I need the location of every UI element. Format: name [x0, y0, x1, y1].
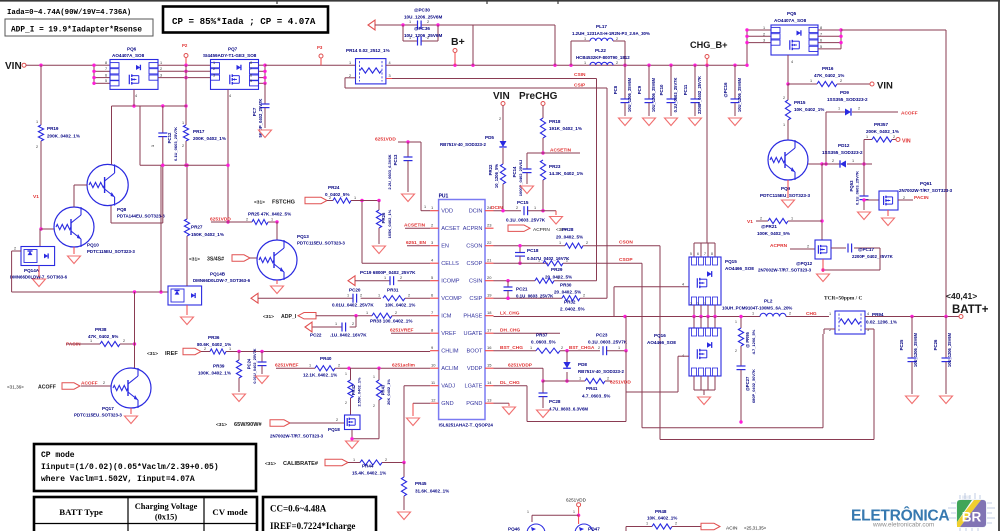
svg-text:P2: P2 — [182, 43, 188, 48]
svg-text:2: 2 — [123, 339, 125, 343]
net V1 label — [33, 194, 39, 200]
svg-text:80.6K_0402_1%: 80.6K_0402_1% — [197, 342, 231, 347]
svg-text:LX_CHG: LX_CHG — [500, 311, 520, 317]
svg-text:RB751V-40_SOD323-2: RB751V-40_SOD323-2 — [578, 369, 624, 374]
arrow B+ bus — [368, 20, 375, 30]
svg-text:VADJ: VADJ — [441, 384, 455, 390]
svg-text:0.02_1206_1%: 0.02_1206_1% — [866, 320, 897, 325]
svg-text:PDTC115EU_SOT323-3: PDTC115EU_SOT323-3 — [760, 193, 810, 198]
resistor PR48 — [626, 509, 701, 531]
capacitor PC14 — [512, 153, 532, 196]
resistor PR16 — [788, 66, 870, 87]
capacitor PC27 — [737, 366, 757, 424]
svg-text:3: 3 — [160, 73, 162, 77]
capacitor PC18 — [515, 244, 570, 265]
svg-text:V1: V1 — [747, 219, 753, 225]
ground PQ12 — [817, 259, 830, 282]
svg-text:PD12: PD12 — [838, 143, 850, 148]
resistor PR18 — [540, 106, 582, 139]
svg-text:4: 4 — [791, 60, 793, 64]
capacitor PC9 — [637, 65, 656, 125]
svg-text:@PC16: @PC16 — [723, 82, 728, 98]
wire PQ15 gate — [614, 283, 689, 287]
svg-text:1: 1 — [752, 312, 754, 316]
ground PC7 — [259, 130, 272, 138]
svg-text:1: 1 — [579, 377, 581, 381]
svg-text:▒▒▒: ▒▒▒ — [962, 496, 970, 500]
svg-text:2: 2 — [675, 522, 677, 526]
svg-text:2: 2 — [160, 67, 162, 71]
svg-text:PD5: PD5 — [485, 135, 494, 140]
svg-text:PR42: PR42 — [351, 384, 356, 395]
svg-text:6251VREF: 6251VREF — [275, 362, 299, 368]
svg-text:10_1206_5%: 10_1206_5% — [494, 164, 499, 188]
capacitor PC11 — [683, 65, 702, 125]
svg-text:22: 22 — [487, 240, 492, 245]
svg-text:2: 2 — [204, 347, 206, 351]
svg-text:200K_0402_1%: 200K_0402_1% — [866, 129, 899, 134]
svg-text:PR44: PR44 — [362, 464, 374, 469]
net 6251_EN — [406, 240, 430, 246]
svg-text:(0x15): (0x15) — [155, 513, 178, 522]
svg-text:LGATE: LGATE — [464, 384, 482, 390]
node BATT+ — [946, 291, 989, 319]
svg-text:4: 4 — [431, 258, 434, 263]
diode PD8 zener — [563, 351, 624, 383]
svg-text:2: 2 — [352, 322, 354, 326]
net CSON label — [619, 240, 633, 246]
capacitor PC15 — [506, 200, 556, 223]
wire PQ6-PQ7 rows — [158, 65, 211, 77]
node VIN right — [870, 81, 893, 92]
svg-text:PC10: PC10 — [659, 84, 664, 95]
wire bottom-left rail — [12, 290, 168, 293]
svg-text:2: 2 — [338, 364, 340, 368]
resistor PR17 — [182, 121, 226, 148]
svg-text:5: 5 — [250, 79, 252, 83]
svg-text:UGATE: UGATE — [464, 331, 483, 337]
svg-text:PQ46: PQ46 — [508, 527, 520, 531]
capacitor PC25 — [899, 317, 918, 395]
wire PQ8 base link — [74, 185, 87, 207]
svg-text:CHLIM: CHLIM — [441, 349, 459, 355]
svg-text:PC12: PC12 — [167, 132, 172, 143]
node CHG_B+ — [690, 40, 728, 65]
connector 65W/90W# — [216, 420, 290, 428]
ground PC24 — [256, 376, 269, 384]
wire B+ bus drop2 — [554, 25, 556, 65]
svg-text:9: 9 — [431, 345, 434, 350]
ground PC28 — [537, 410, 550, 418]
svg-text:PR41: PR41 — [586, 386, 598, 391]
svg-text:CSIN: CSIN — [469, 279, 482, 285]
svg-text:3S/4S#: 3S/4S# — [207, 257, 224, 263]
resistor PR32 — [560, 294, 607, 312]
svg-text:6: 6 — [250, 73, 252, 77]
svg-text:PHASE: PHASE — [463, 314, 482, 320]
svg-text:ACPRN: ACPRN — [770, 243, 788, 249]
wire PQ8 emitter tie — [111, 106, 113, 164]
resistor PR41 — [543, 377, 612, 399]
svg-text:1: 1 — [559, 241, 561, 245]
svg-text:PACIN: PACIN — [914, 195, 929, 201]
arrow ICOMP — [348, 276, 355, 286]
wire PQ5 pin4 — [786, 55, 789, 86]
svg-text:4.7_1206_5%: 4.7_1206_5% — [751, 329, 756, 354]
resistor PR30 — [535, 276, 597, 295]
capacitor PC21 — [504, 281, 555, 300]
svg-text:2: 2 — [395, 311, 397, 315]
svg-text:PR28: PR28 — [562, 227, 574, 232]
svg-text:1: 1 — [534, 206, 536, 210]
svg-text:4.7U_0603_6.3V6M: 4.7U_0603_6.3V6M — [549, 407, 588, 412]
capacitor PC24 — [247, 348, 267, 383]
note CC box — [263, 497, 376, 531]
svg-text:CSIN: CSIN — [574, 72, 586, 78]
resistor PR23 — [540, 160, 583, 211]
svg-text:PQ6: PQ6 — [127, 47, 137, 52]
node VIN input — [5, 61, 26, 72]
resistor PR94 0.02_1206_1% — [829, 311, 897, 334]
svg-text:2: 2 — [832, 159, 834, 163]
svg-text:10K_0402_1%: 10K_0402_1% — [794, 107, 824, 112]
transistor PQ6 AO4407A_SO8 — [110, 47, 162, 99]
svg-text:1: 1 — [373, 375, 375, 379]
ground DCIN — [550, 211, 563, 224]
svg-text:SI4459ADY-T1-GE3_SO8: SI4459ADY-T1-GE3_SO8 — [203, 53, 257, 58]
svg-text:8: 8 — [431, 328, 434, 333]
svg-text:1: 1 — [829, 312, 831, 316]
wire UGATE drive — [613, 287, 615, 317]
svg-text:2: 2 — [431, 223, 434, 228]
net ACOFF right — [901, 111, 918, 117]
resistor PR39 — [198, 352, 242, 393]
svg-text:<25,31,35>: <25,31,35> — [744, 526, 767, 531]
svg-text:1: 1 — [409, 36, 411, 40]
svg-text:CSIP: CSIP — [574, 83, 586, 89]
svg-text:10UH_PCM9104T-100MS_6A_20%: 10UH_PCM9104T-100MS_6A_20% — [722, 306, 792, 311]
svg-text:1: 1 — [573, 510, 575, 514]
svg-text:where Vaclm=1.502V, Iinput=4.0: where Vaclm=1.502V, Iinput=4.07A — [41, 475, 195, 484]
wire h165 — [140, 164, 230, 167]
svg-text:PL17: PL17 — [596, 24, 607, 29]
svg-text:PD9: PD9 — [840, 90, 849, 95]
svg-text:2: 2 — [345, 401, 347, 405]
svg-text:13: 13 — [487, 398, 492, 403]
svg-text:PR27: PR27 — [191, 225, 203, 230]
svg-text:0.1U_0603_25V7K: 0.1U_0603_25V7K — [506, 218, 546, 223]
svg-text:IREF: IREF — [165, 351, 178, 357]
wire PQ5 left feed — [745, 26, 771, 67]
capacitor PC23 — [588, 333, 628, 356]
svg-text:15.4K_0402_1%: 15.4K_0402_1% — [352, 471, 386, 476]
note CP box — [163, 7, 328, 33]
svg-text:PQ17: PQ17 — [102, 406, 114, 411]
svg-text:4: 4 — [229, 94, 231, 98]
svg-text:0_0603_5%: 0_0603_5% — [531, 340, 556, 345]
svg-text:19: 19 — [487, 293, 492, 298]
wire PR17 bottom — [184, 141, 187, 167]
svg-text:1: 1 — [527, 510, 529, 514]
ground PC26 — [940, 396, 953, 404]
svg-text:2: 2 — [763, 32, 765, 36]
svg-text:2: 2 — [36, 145, 38, 149]
svg-text:47K_0402_1%: 47K_0402_1% — [814, 73, 844, 78]
svg-text:BST_CHGA: BST_CHGA — [569, 345, 595, 350]
ground PQ16 — [698, 397, 711, 405]
wire left loop — [12, 251, 21, 292]
wire PQ9 base — [808, 162, 824, 165]
svg-text:1: 1 — [557, 276, 559, 280]
svg-text:DMN66D0LDW-7_SOT363-6: DMN66D0LDW-7_SOT363-6 — [193, 278, 251, 283]
net CSIP label — [574, 83, 586, 89]
svg-text:AO4407A_SO8: AO4407A_SO8 — [112, 53, 145, 58]
svg-text:0.1U_0603_25V7K: 0.1U_0603_25V7K — [173, 127, 178, 161]
svg-text:10U_1206_25V6M: 10U_1206_25V6M — [913, 332, 918, 367]
svg-text:1: 1 — [584, 61, 586, 65]
svg-text:2: 2 — [616, 37, 618, 41]
svg-text:Charging Voltage: Charging Voltage — [135, 502, 198, 511]
node B+ — [451, 36, 465, 65]
resistor PR43 — [373, 368, 391, 439]
node VIN PR357 — [896, 138, 911, 145]
svg-text:6251VDD: 6251VDD — [566, 498, 587, 503]
svg-text:1: 1 — [791, 217, 793, 221]
resistor PR15 — [783, 84, 824, 127]
svg-text:@PQ12: @PQ12 — [796, 261, 813, 266]
svg-text:1: 1 — [646, 522, 648, 526]
svg-text:7: 7 — [431, 310, 434, 315]
wire VDD feed — [421, 142, 430, 211]
capacitor PC17 — [831, 244, 894, 260]
capacitor PQ53 — [849, 164, 869, 210]
net 6251VDD bottom — [566, 498, 587, 518]
net 6251VDDP VDDP — [494, 362, 544, 368]
net CSIN label — [574, 72, 586, 78]
svg-text:CSOP: CSOP — [467, 261, 483, 267]
inductor PL17 — [571, 24, 650, 65]
svg-text:2: 2 — [182, 144, 184, 148]
svg-text:2: 2 — [360, 294, 362, 298]
svg-text:ADP_I = 19.9*Iadapter*Rsense: ADP_I = 19.9*Iadapter*Rsense — [11, 27, 142, 35]
capacitor PC26 — [933, 317, 952, 395]
svg-text:2: 2 — [690, 302, 692, 306]
wire PR94 kelvin pins — [824, 329, 874, 334]
svg-text:8: 8 — [105, 61, 107, 65]
svg-text:@PC17: @PC17 — [858, 247, 874, 252]
svg-text:2: 2 — [385, 458, 387, 462]
svg-text:PC14: PC14 — [512, 166, 517, 177]
wire ACOFF to PQ17 — [81, 381, 111, 386]
svg-text:DL_CHG: DL_CHG — [500, 380, 520, 386]
svg-text:ACPRN: ACPRN — [533, 227, 550, 233]
svg-text:www.eletronicabr.com: www.eletronicabr.com — [872, 522, 934, 529]
svg-text:1: 1 — [763, 26, 765, 30]
wire PQ14A feed — [39, 229, 41, 247]
inductor PL22 — [576, 48, 630, 65]
svg-text:18: 18 — [487, 310, 492, 315]
svg-text:PC11: PC11 — [683, 84, 688, 95]
svg-text:200K_0402_1%: 200K_0402_1% — [47, 134, 80, 139]
svg-text:CSOP: CSOP — [619, 257, 633, 263]
wire PC36 loop — [403, 25, 438, 41]
svg-text:CV mode: CV mode — [212, 507, 247, 517]
ground PQ17 — [125, 408, 138, 424]
svg-text:PR24: PR24 — [328, 185, 340, 190]
svg-text:@ PR95: @ PR95 — [745, 331, 750, 347]
svg-text:1: 1 — [151, 145, 155, 147]
svg-text:AO4466_SO8: AO4466_SO8 — [647, 340, 676, 345]
svg-text:12.1K_0402_1%: 12.1K_0402_1% — [303, 373, 337, 378]
connector ACOFF — [7, 381, 98, 391]
transistor PQ15 AO4466_SO8 — [689, 257, 754, 305]
svg-text:BATT+: BATT+ — [952, 304, 989, 316]
svg-text:150K_0402_1%: 150K_0402_1% — [191, 232, 224, 237]
svg-text:PQ14B: PQ14B — [210, 272, 226, 277]
wire B+ bus — [375, 23, 555, 26]
svg-text:DH_CHG: DH_CHG — [500, 328, 521, 334]
svg-text:1: 1 — [36, 120, 38, 124]
svg-text:PC24: PC24 — [247, 358, 252, 369]
net 6251aclim — [392, 362, 415, 368]
svg-text:PQ5: PQ5 — [787, 11, 797, 16]
wire PC17 return — [821, 248, 880, 272]
svg-text:14: 14 — [487, 380, 492, 385]
svg-text:VIN: VIN — [493, 91, 510, 102]
svg-text:3: 3 — [697, 302, 699, 306]
svg-text:20K_0402_1%: 20K_0402_1% — [386, 379, 391, 405]
svg-text:2.2U_0603_6.3V6K: 2.2U_0603_6.3V6K — [387, 154, 392, 189]
svg-text:1: 1 — [213, 61, 215, 65]
svg-text:PR36: PR36 — [208, 335, 220, 340]
svg-text:1: 1 — [366, 311, 368, 315]
wire PD9 left drop — [824, 112, 827, 166]
svg-text:PR40: PR40 — [320, 356, 332, 361]
svg-text:680P_0402_50V7K: 680P_0402_50V7K — [751, 369, 756, 403]
wire PR14 pin3 CSIN — [386, 78, 597, 80]
svg-text:ACOFF: ACOFF — [901, 111, 918, 117]
svg-text:PD8: PD8 — [578, 362, 587, 367]
svg-text:ACOFF: ACOFF — [38, 385, 56, 391]
svg-text:200K_0402_1%: 200K_0402_1% — [193, 136, 226, 141]
resistor PR27 — [184, 164, 224, 279]
wire PR14 pin2 CSIP loop — [345, 78, 607, 88]
svg-text:2200P_0402_25V7K: 2200P_0402_25V7K — [852, 254, 894, 259]
svg-text:2N7002W-T/R7_SOT323-3: 2N7002W-T/R7_SOT323-3 — [758, 268, 812, 273]
svg-text:6251VDD: 6251VDD — [375, 136, 396, 142]
svg-text:VCOMP: VCOMP — [441, 296, 462, 302]
svg-text:1: 1 — [409, 20, 411, 24]
capacitor PC10 — [659, 65, 678, 125]
wire right loop down — [945, 30, 947, 317]
svg-text:6: 6 — [431, 293, 434, 298]
svg-text:100K_0402_1%: 100K_0402_1% — [198, 371, 231, 376]
svg-text:2: 2 — [616, 61, 618, 65]
svg-text:CP = 85%*Iada ; CP = 4.07A: CP = 85%*Iada ; CP = 4.07A — [172, 16, 316, 27]
svg-text:1: 1 — [783, 123, 785, 127]
wire CSOP — [494, 262, 549, 264]
svg-text:2: 2 — [566, 259, 568, 263]
svg-text:<40,41>: <40,41> — [946, 291, 977, 301]
svg-text:1: 1 — [347, 294, 349, 298]
svg-text:1: 1 — [309, 364, 311, 368]
svg-text:ICOMP: ICOMP — [441, 279, 460, 285]
net BST_CHGA — [569, 345, 595, 350]
svg-text:PQ61: PQ61 — [920, 181, 932, 186]
svg-text:P3: P3 — [317, 45, 323, 50]
svg-text:PC28: PC28 — [549, 399, 561, 404]
transistor PQ18 2N7002W — [270, 415, 360, 439]
svg-text:2: 2 — [583, 294, 585, 298]
wire BATT+ rail — [865, 315, 959, 318]
svg-text:2: 2 — [516, 206, 518, 210]
note ADP_I box — [5, 19, 153, 36]
svg-text:12: 12 — [431, 398, 436, 403]
svg-text:CSON: CSON — [619, 240, 633, 246]
ground PR39 — [233, 394, 246, 402]
capacitor PC7 — [252, 83, 270, 137]
wire VADJ — [404, 386, 430, 463]
transistor PQ17 PDTC115EU_SOT323-3 — [74, 368, 151, 418]
svg-text:BST_CHG: BST_CHG — [500, 345, 523, 351]
resistor PR36 — [197, 335, 430, 354]
capacitor PC13 — [387, 142, 413, 192]
svg-text:VIN: VIN — [877, 81, 893, 92]
svg-text:PR31: PR31 — [387, 288, 399, 293]
svg-text:PC15: PC15 — [517, 200, 529, 205]
net 6251VDD PR41 — [610, 379, 631, 385]
svg-text:Iada=0~4.74A(90W/19V=4.736A): Iada=0~4.74A(90W/19V=4.736A) — [7, 9, 131, 17]
wire P2 drop — [184, 65, 187, 125]
diode PD5 RB751V-40 — [440, 135, 507, 147]
svg-text:PR45: PR45 — [415, 481, 427, 486]
net DL_CHG LGATE — [494, 380, 528, 386]
transistor PQ13 PDTC115EU_SOT323-3 — [257, 222, 345, 280]
svg-text:PreCHG: PreCHG — [519, 91, 558, 102]
svg-text:10U_1206_25V6M: 10U_1206_25V6M — [627, 77, 632, 112]
wire PQ5 right tie — [818, 28, 843, 49]
svg-text:21: 21 — [487, 258, 492, 263]
diode PD9 1SS355 — [826, 90, 898, 116]
svg-text:VIN: VIN — [5, 61, 22, 72]
resistor PR24 — [325, 185, 381, 203]
net ACPRN right side — [770, 243, 815, 249]
svg-text:@PC36: @PC36 — [414, 26, 430, 31]
wire PQ16 source gnd — [694, 376, 715, 395]
svg-text:2: 2 — [427, 36, 429, 40]
svg-text:CELLS: CELLS — [441, 261, 459, 267]
svg-text:105K_0402_1%: 105K_0402_1% — [387, 209, 392, 238]
resistor PR42 — [345, 368, 362, 415]
wire PQ6 left tie — [92, 61, 110, 85]
svg-text:GND: GND — [441, 401, 453, 407]
svg-text:2_0402_5%: 2_0402_5% — [560, 307, 585, 312]
svg-text:2: 2 — [14, 247, 16, 251]
svg-text:2: 2 — [329, 196, 331, 200]
svg-text:PR22: PR22 — [488, 164, 493, 175]
wire CSIN drop — [596, 79, 598, 281]
logo ELETRONICA BR watermark — [851, 493, 995, 531]
svg-text:PQ18: PQ18 — [328, 427, 340, 432]
svg-text:VREF: VREF — [441, 331, 457, 337]
resistor PR22 — [488, 148, 506, 211]
svg-text:2: 2 — [858, 107, 860, 111]
svg-text:2N7002W-T/R7_SOT323-3: 2N7002W-T/R7_SOT323-3 — [270, 434, 324, 439]
net PACIN right — [898, 195, 929, 201]
node VIN prechg — [493, 91, 510, 106]
net DH_CHG UGATE — [494, 328, 561, 334]
note CP mode box — [34, 444, 256, 491]
